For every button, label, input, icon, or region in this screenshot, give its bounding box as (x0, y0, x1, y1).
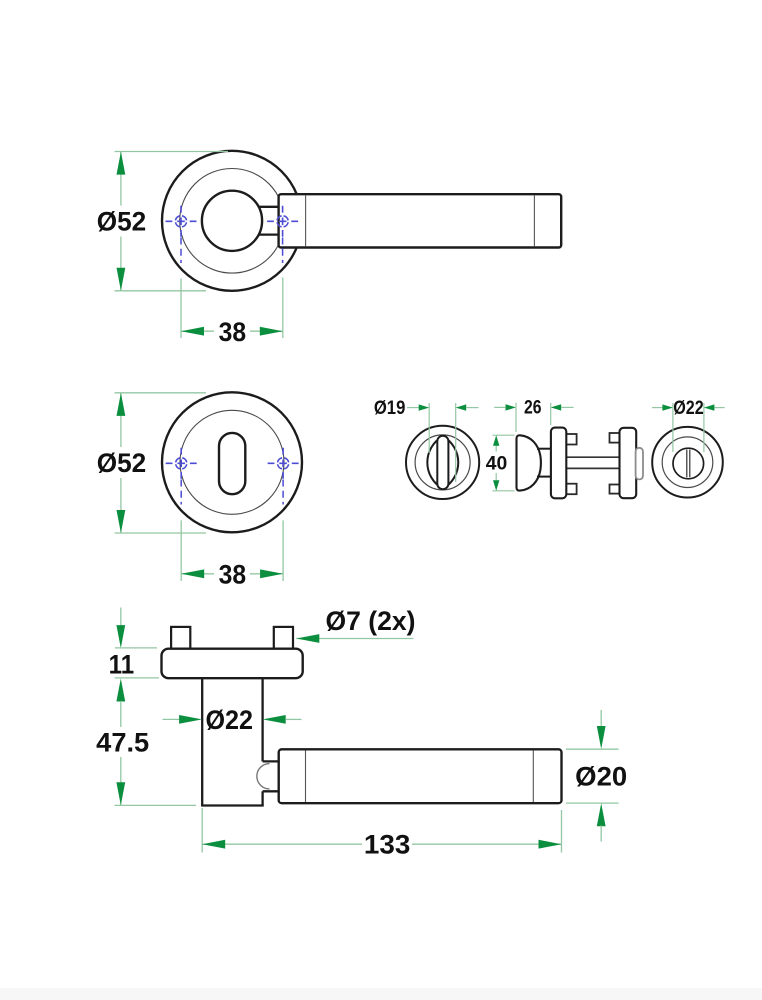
dim O52 arrow down (escutcheon) (117, 510, 126, 533)
release flange tab top (610, 433, 622, 443)
screw centre line right (escutcheon) (282, 480, 284, 505)
release cylinder cap (636, 448, 643, 480)
escutcheon inner rim circle (180, 410, 284, 514)
dim 38 arrow right (top view) (260, 327, 283, 336)
release slot lines (687, 450, 690, 478)
dim 47.5 bottom extension line (115, 804, 197, 806)
collar top edge (263, 760, 279, 762)
svg-text:Ø52: Ø52 (97, 207, 147, 237)
dim 26 leader line right (561, 406, 573, 408)
neck left edge (201, 678, 203, 805)
dim O7 arrow (296, 634, 319, 643)
screw centre mark left (escutcheon) (166, 448, 197, 479)
dim 38 right extension line (top view) (282, 278, 284, 339)
dim 38 arrow right (escutcheon) (260, 569, 283, 578)
svg-text:11: 11 (109, 650, 135, 680)
escutcheon outer circle (162, 392, 302, 532)
svg-text:47.5: 47.5 (96, 728, 149, 758)
dim 26 arrow right (551, 404, 562, 410)
dim O20 lower leader line (600, 826, 602, 842)
knob neck bottom line (537, 476, 551, 478)
dim O7 leader line (296, 638, 413, 640)
dim 40 arrow down (493, 480, 499, 491)
svg-text:Ø19: Ø19 (374, 398, 406, 419)
dim 133 left extension line (201, 808, 203, 853)
dim O22 leader line left (163, 718, 181, 720)
dim 38 left extension line (escutcheon) (180, 520, 182, 581)
lever neck bottom line (258, 233, 279, 235)
rose plate (162, 649, 303, 679)
svg-text:Ø7 (2x): Ø7 (2x) (326, 606, 416, 636)
dim O19 arrow right (456, 404, 467, 410)
dim 133 arrow right (539, 840, 562, 849)
svg-text:Ø52: Ø52 (97, 448, 147, 478)
release flange (620, 428, 637, 498)
dim O52 arrow down (top view) (117, 268, 126, 291)
dim O22 arrow right (263, 715, 286, 724)
dim O22r left extension line (672, 403, 674, 452)
dim 26 left extension line (515, 403, 517, 432)
lever edge line right (side) (532, 750, 534, 802)
dim O20 arrow up (597, 803, 606, 826)
thumbturn knob dome (517, 435, 541, 490)
screw centre line left (180, 238, 182, 264)
svg-text:40: 40 (486, 453, 508, 474)
screw centre line left (escutcheon) (180, 480, 182, 505)
collar arc (257, 764, 270, 789)
screw centre mark right (escutcheon) (268, 448, 299, 479)
knob neck top line (537, 448, 551, 450)
turn flange tab bottom (565, 484, 577, 495)
dim 26 arrow left (506, 404, 517, 410)
dim 40 top extension line (493, 434, 515, 436)
turn rose inner circle (415, 435, 470, 490)
dim O52 arrow up (top view) (117, 152, 126, 175)
dim O19 left extension line (428, 403, 430, 453)
dim O19 leader line left (407, 407, 419, 409)
dim O22 leader line right (286, 718, 302, 720)
release slot circle (673, 448, 704, 479)
hub circle (202, 191, 262, 251)
svg-text:Ø22: Ø22 (673, 398, 704, 419)
dim O22r arrow right (704, 404, 715, 410)
dim 40 arrow up (493, 435, 499, 446)
screw centre line right (282, 238, 284, 264)
dim O20 bottom extension line (566, 802, 619, 804)
release rose outer circle (652, 427, 723, 498)
neck right edge upper (261, 678, 263, 761)
dim 11 arrow down (116, 625, 125, 648)
dim 38 left extension line (top view) (180, 279, 182, 339)
lever edge line left (side) (305, 750, 307, 802)
lever edge line left (305, 195, 307, 246)
dim 26 right extension line (550, 403, 552, 425)
keyhole slot (219, 433, 245, 494)
dim O20 upper leader line (600, 710, 602, 727)
fixing tab right (274, 627, 293, 651)
dim 38 line (top view) (181, 330, 283, 332)
turn rose outer circle (406, 426, 479, 499)
neck bottom edge (201, 804, 264, 806)
svg-text:38: 38 (219, 317, 247, 347)
spindle (565, 457, 621, 468)
svg-text:38: 38 (219, 559, 247, 589)
dim 26 leader line left (494, 406, 505, 408)
dim O52 line (escutcheon) (120, 393, 122, 532)
svg-text:133: 133 (364, 830, 411, 860)
dim 40 bottom extension line (493, 490, 515, 492)
lever edge line right (533, 195, 535, 246)
dim O52 bottom extension line (escutcheon) (115, 532, 207, 534)
dim O52 bottom extension line (top view) (115, 290, 207, 292)
neck right edge lower (261, 791, 263, 805)
dim 38 right extension line (escutcheon) (282, 520, 284, 581)
turn flange tab top (565, 434, 577, 445)
lever neck top line (258, 206, 279, 208)
dim O20 top extension line (566, 748, 619, 750)
dim O19 arrow left (419, 404, 430, 410)
dim O22r right extension line (703, 403, 705, 452)
dim 11 bottom extension line (115, 677, 160, 679)
dim 11 top extension line (115, 647, 157, 649)
turn flange (551, 428, 566, 499)
release rose middle circle (662, 437, 713, 488)
fixing tab left (171, 627, 190, 651)
lever grip (plan) (279, 194, 562, 247)
dim 133 right extension line (561, 810, 563, 853)
rosette inner rim circle (180, 169, 285, 274)
release flange tab bottom (610, 485, 622, 494)
dim O22r arrow left (662, 404, 673, 410)
dim 38 arrow left (escutcheon) (181, 569, 204, 578)
dim 38 line (escutcheon) (181, 573, 283, 575)
lever bar (side) (279, 749, 562, 803)
svg-text:26: 26 (524, 398, 542, 419)
dim O52 line (top view) (120, 152, 122, 290)
svg-text:Ø22: Ø22 (205, 705, 253, 735)
dim O52 arrow up (escutcheon) (117, 393, 126, 416)
dim O20 arrow down (597, 726, 606, 749)
svg-text:Ø20: Ø20 (575, 762, 627, 792)
dim 47.5 arrow down (116, 782, 125, 805)
rosette outer circle (162, 151, 302, 291)
dim O22r leader line left (652, 407, 663, 409)
dim O52 top extension line (top view) (115, 151, 229, 153)
collar bottom edge (263, 790, 279, 792)
dim O22r leader line right (714, 407, 724, 409)
dim 47.5 arrow up (116, 679, 125, 702)
dim O19 right extension line (455, 403, 457, 482)
dim 133 arrow left (202, 840, 225, 849)
dim 133 line (202, 843, 561, 845)
dim O52 top extension line (escutcheon) (115, 392, 207, 394)
thumbturn grip bar (437, 436, 448, 490)
dim O19 leader line right (466, 407, 478, 409)
dim 47.5 line (120, 701, 122, 805)
dim 11 upper leader line (120, 608, 122, 627)
dim O22 arrow left (179, 715, 202, 724)
dim 38 arrow left (top view) (181, 327, 204, 336)
bottom page band (0, 988, 762, 1000)
dim 40 line (495, 445, 497, 481)
screw centre mark right (267, 206, 298, 237)
thumbturn wing outline (427, 436, 458, 489)
screw centre mark left (166, 206, 197, 237)
